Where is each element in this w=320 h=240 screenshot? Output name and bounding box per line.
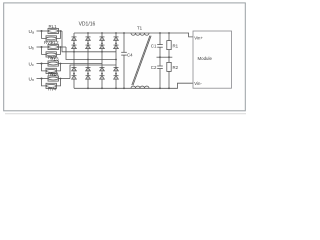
svg-text:RV4: RV4: [48, 87, 57, 92]
node R1 bottom: [168, 56, 170, 58]
wire row2 to riser: [58, 46, 66, 48]
wire riser row4 to bus D: [70, 65, 116, 79]
diode VD11: [100, 67, 105, 71]
resistor R1: [167, 33, 171, 57]
node row3 rejoin: [60, 63, 62, 65]
capacitor C2: [157, 57, 163, 88]
node bottom rail col3: [101, 87, 103, 89]
diode column 2 vertical: [87, 33, 89, 37]
svg-text:RL4: RL4: [51, 71, 60, 76]
choke T1 core diagonal 2: [133, 36, 151, 85]
svg-text:Module: Module: [198, 56, 213, 61]
svg-text:R1: R1: [173, 44, 179, 49]
wire RV1 branch down: [42, 31, 47, 38]
diode VD1: [72, 37, 77, 41]
wire RV3 branch up: [56, 64, 60, 71]
diode VD14: [114, 45, 119, 49]
wire RV1 branch up: [56, 31, 60, 38]
wire row3 bus C: [58, 63, 102, 65]
choke T1 core diagonal 1: [132, 36, 150, 85]
capacitor C4: [121, 33, 127, 88]
node col3 bottom pair junction: [101, 73, 103, 75]
node top rail col4: [115, 32, 117, 34]
diode VD4: [72, 76, 77, 80]
node col2 top pair junction: [87, 43, 89, 45]
node col4 bottom pair junction: [115, 73, 117, 75]
diode VD15: [114, 67, 119, 71]
node bus B col2: [87, 59, 89, 61]
diode VD2: [72, 45, 77, 49]
diode VD13: [114, 37, 119, 41]
input row 2: wire Ub: [37, 46, 49, 48]
inductor RL3: [48, 61, 58, 66]
svg-text:T1: T1: [137, 26, 143, 31]
svg-text:Vin+: Vin+: [194, 36, 203, 41]
node col1 bottom pair junction: [73, 73, 75, 75]
node bottom rail col4: [115, 87, 117, 89]
frame border: [4, 3, 246, 111]
wire bottom rail: [74, 83, 193, 88]
wire top rail: [74, 33, 193, 37]
diode VD3: [72, 67, 77, 71]
wire riser row1 to bus A: [62, 31, 116, 52]
node row4 rejoin: [60, 78, 62, 80]
node top rail col2: [87, 32, 89, 34]
wire RV4 branch up: [56, 79, 60, 86]
svg-text:Vin-: Vin-: [194, 81, 202, 86]
frame bottom shadow: [5, 113, 246, 115]
node col2 bottom pair junction: [87, 73, 89, 75]
node C4 top: [123, 32, 125, 34]
diode column 1 vertical: [73, 33, 75, 37]
diode VD12: [100, 76, 105, 80]
wire mid junction segment: [157, 56, 173, 58]
wire RV3 branch down: [42, 64, 47, 71]
node C4 bottom: [123, 87, 125, 89]
node C1 bottom: [159, 56, 161, 58]
varistor RV2: [46, 52, 56, 57]
node row2 rejoin: [60, 46, 62, 48]
varistor RV4: [46, 83, 56, 88]
node top rail C1: [159, 32, 161, 34]
wire RV2 branch up: [56, 47, 60, 54]
svg-text:VD1/16: VD1/16: [79, 21, 96, 27]
node bottom rail col2: [87, 87, 89, 89]
choke T1 bottom winding: [131, 86, 149, 88]
node col3 top pair junction: [101, 43, 103, 45]
node bus A col3: [101, 51, 103, 53]
diode VD5: [86, 37, 91, 41]
input row 1: wire Ua: [37, 30, 49, 32]
node row4 junction: [41, 78, 43, 80]
node top rail col3: [101, 32, 103, 34]
diode VD10: [100, 45, 105, 49]
diode VD16: [114, 76, 119, 80]
node row3 junction: [41, 63, 43, 65]
input row 4: wire Un: [37, 78, 49, 80]
diode column 4 vertical: [115, 33, 117, 37]
varistor RV1: [46, 36, 56, 41]
svg-text:Uc: Uc: [29, 62, 34, 68]
svg-text:R2: R2: [173, 65, 179, 70]
varistor RV3: [46, 68, 56, 73]
svg-text:RL1: RL1: [49, 24, 58, 29]
inductor RL2: [48, 44, 58, 49]
diode VD9: [100, 37, 105, 41]
module U1 box: [193, 31, 232, 88]
node bottom rail R2: [168, 87, 170, 89]
svg-text:C1: C1: [151, 44, 157, 49]
svg-text:C4: C4: [127, 53, 133, 58]
svg-text:RL3: RL3: [51, 56, 60, 61]
svg-text:Ua: Ua: [29, 29, 34, 35]
choke T1 top winding: [131, 33, 149, 35]
inductor RL1: [48, 28, 58, 33]
wire row4 to riser: [58, 78, 70, 80]
svg-text:Ub: Ub: [29, 45, 34, 51]
svg-text:C2: C2: [151, 65, 157, 70]
node row1 rejoin: [60, 30, 62, 32]
inductor RL4: [48, 76, 58, 81]
resistor R2: [167, 57, 171, 88]
wire row1 to riser: [58, 30, 62, 32]
input row 3: wire Uc: [37, 63, 49, 65]
wire RV2 branch down: [42, 47, 47, 54]
wire RV4 branch down: [42, 79, 47, 86]
node row1 junction: [41, 30, 43, 32]
svg-text:Un: Un: [29, 77, 34, 83]
wire riser row2 to bus B: [66, 47, 116, 60]
svg-text:RL2: RL2: [51, 40, 60, 45]
node row2 junction: [41, 46, 43, 48]
diode VD6: [86, 45, 91, 49]
node top rail R1: [168, 32, 170, 34]
node col1 top pair junction: [73, 43, 75, 45]
diode VD8: [86, 76, 91, 80]
node bottom rail C2: [159, 87, 161, 89]
capacitor C1: [157, 33, 163, 57]
node bus A col1: [73, 51, 75, 53]
diode VD7: [86, 67, 91, 71]
node bus B col4: [115, 59, 117, 61]
diode column 3 vertical: [101, 33, 103, 37]
node col4 top pair junction: [115, 43, 117, 45]
